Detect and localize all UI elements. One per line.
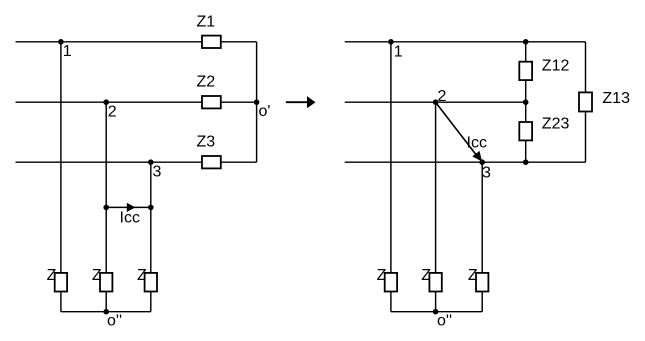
impedance Z23 box (519, 122, 532, 140)
node 3 left diagram (148, 159, 154, 165)
wire vertical from node 3 right diagram (481, 162, 483, 273)
wire below load box 3 right (481, 292, 483, 312)
svg-text:1: 1 (394, 44, 403, 61)
wire bottom bus to o'' right diagram (391, 311, 482, 313)
wire phase-1 left diagram (16, 41, 257, 43)
junction rail middle right diagram (523, 99, 529, 105)
node o'' right diagram (433, 309, 439, 315)
junction rail top right diagram (523, 39, 529, 45)
svg-text:1: 1 (63, 43, 72, 60)
junction rail bottom right diagram (523, 159, 529, 165)
node 2 left diagram (103, 99, 109, 105)
node 1 right diagram (388, 39, 394, 45)
load box 3 left diagram (145, 273, 157, 292)
svg-text:Icc: Icc (467, 135, 487, 152)
wire delta rail Z12/Z23 (525, 42, 527, 162)
node 1 left diagram (58, 39, 64, 45)
wire vertical from node 2 right diagram (435, 102, 437, 273)
node 2 right diagram (433, 99, 439, 105)
wire vertical from node 2 (105, 102, 107, 273)
junction Icc right end (148, 205, 154, 211)
load box 3 right diagram (476, 273, 488, 292)
wire bottom bus to o'' left diagram (61, 311, 151, 313)
impedance Z13 box (579, 92, 592, 111)
node o' (254, 99, 260, 105)
junction Icc left end (103, 205, 109, 211)
svg-text:2: 2 (438, 88, 447, 105)
impedance Z3 box (202, 156, 221, 168)
load box 1 right diagram (385, 273, 397, 292)
svg-text:Z2: Z2 (197, 74, 216, 91)
wire phase-2 left diagram (16, 101, 257, 103)
impedance Z2 box (202, 96, 221, 108)
load box 2 left diagram (100, 273, 112, 292)
svg-text:Z12: Z12 (542, 58, 570, 75)
svg-text:Z13: Z13 (602, 90, 630, 107)
svg-text:o'': o'' (437, 313, 452, 330)
wire delta rail Z13 (585, 42, 587, 162)
svg-text:3: 3 (482, 164, 491, 181)
wire vertical from node 3 (150, 162, 152, 273)
wire below load box 1 right (390, 292, 392, 312)
wire phase-1 right diagram (345, 41, 586, 43)
load box 2 right diagram (429, 273, 441, 292)
svg-text:Z1: Z1 (197, 14, 216, 31)
transform arrow between diagrams (286, 101, 308, 103)
svg-text:Z3: Z3 (197, 134, 216, 151)
wire phase-3 right diagram (345, 161, 586, 163)
svg-text:Icc: Icc (120, 209, 140, 226)
wire vertical from node 1 (60, 42, 62, 273)
Icc fault arrow right diagram (436, 102, 477, 155)
wire phase-3 left diagram (16, 161, 257, 163)
impedance Z1 box (202, 36, 221, 48)
svg-text:2: 2 (108, 103, 117, 120)
impedance Z12 box (519, 62, 532, 80)
wire phase-2 right diagram (345, 101, 526, 103)
wire below load box 3 (150, 292, 152, 312)
node o'' left diagram (103, 309, 109, 315)
wire below load box 1 (60, 292, 62, 312)
load box 1 left diagram (55, 273, 67, 292)
svg-text:o': o' (259, 103, 271, 120)
wire below load box 2 right (435, 292, 437, 312)
wire vertical from node 1 right diagram (390, 42, 392, 273)
svg-text:Z23: Z23 (542, 116, 570, 133)
wire Icc short-circuit link left diagram (106, 206, 151, 208)
wire below load box 2 (105, 292, 107, 312)
arrowhead Icc left diagram (127, 203, 136, 212)
svg-text:3: 3 (153, 164, 162, 181)
svg-text:o'': o'' (107, 313, 122, 330)
wire right rail left diagram (star point feed) (256, 42, 258, 162)
node 3 right diagram (479, 159, 485, 165)
